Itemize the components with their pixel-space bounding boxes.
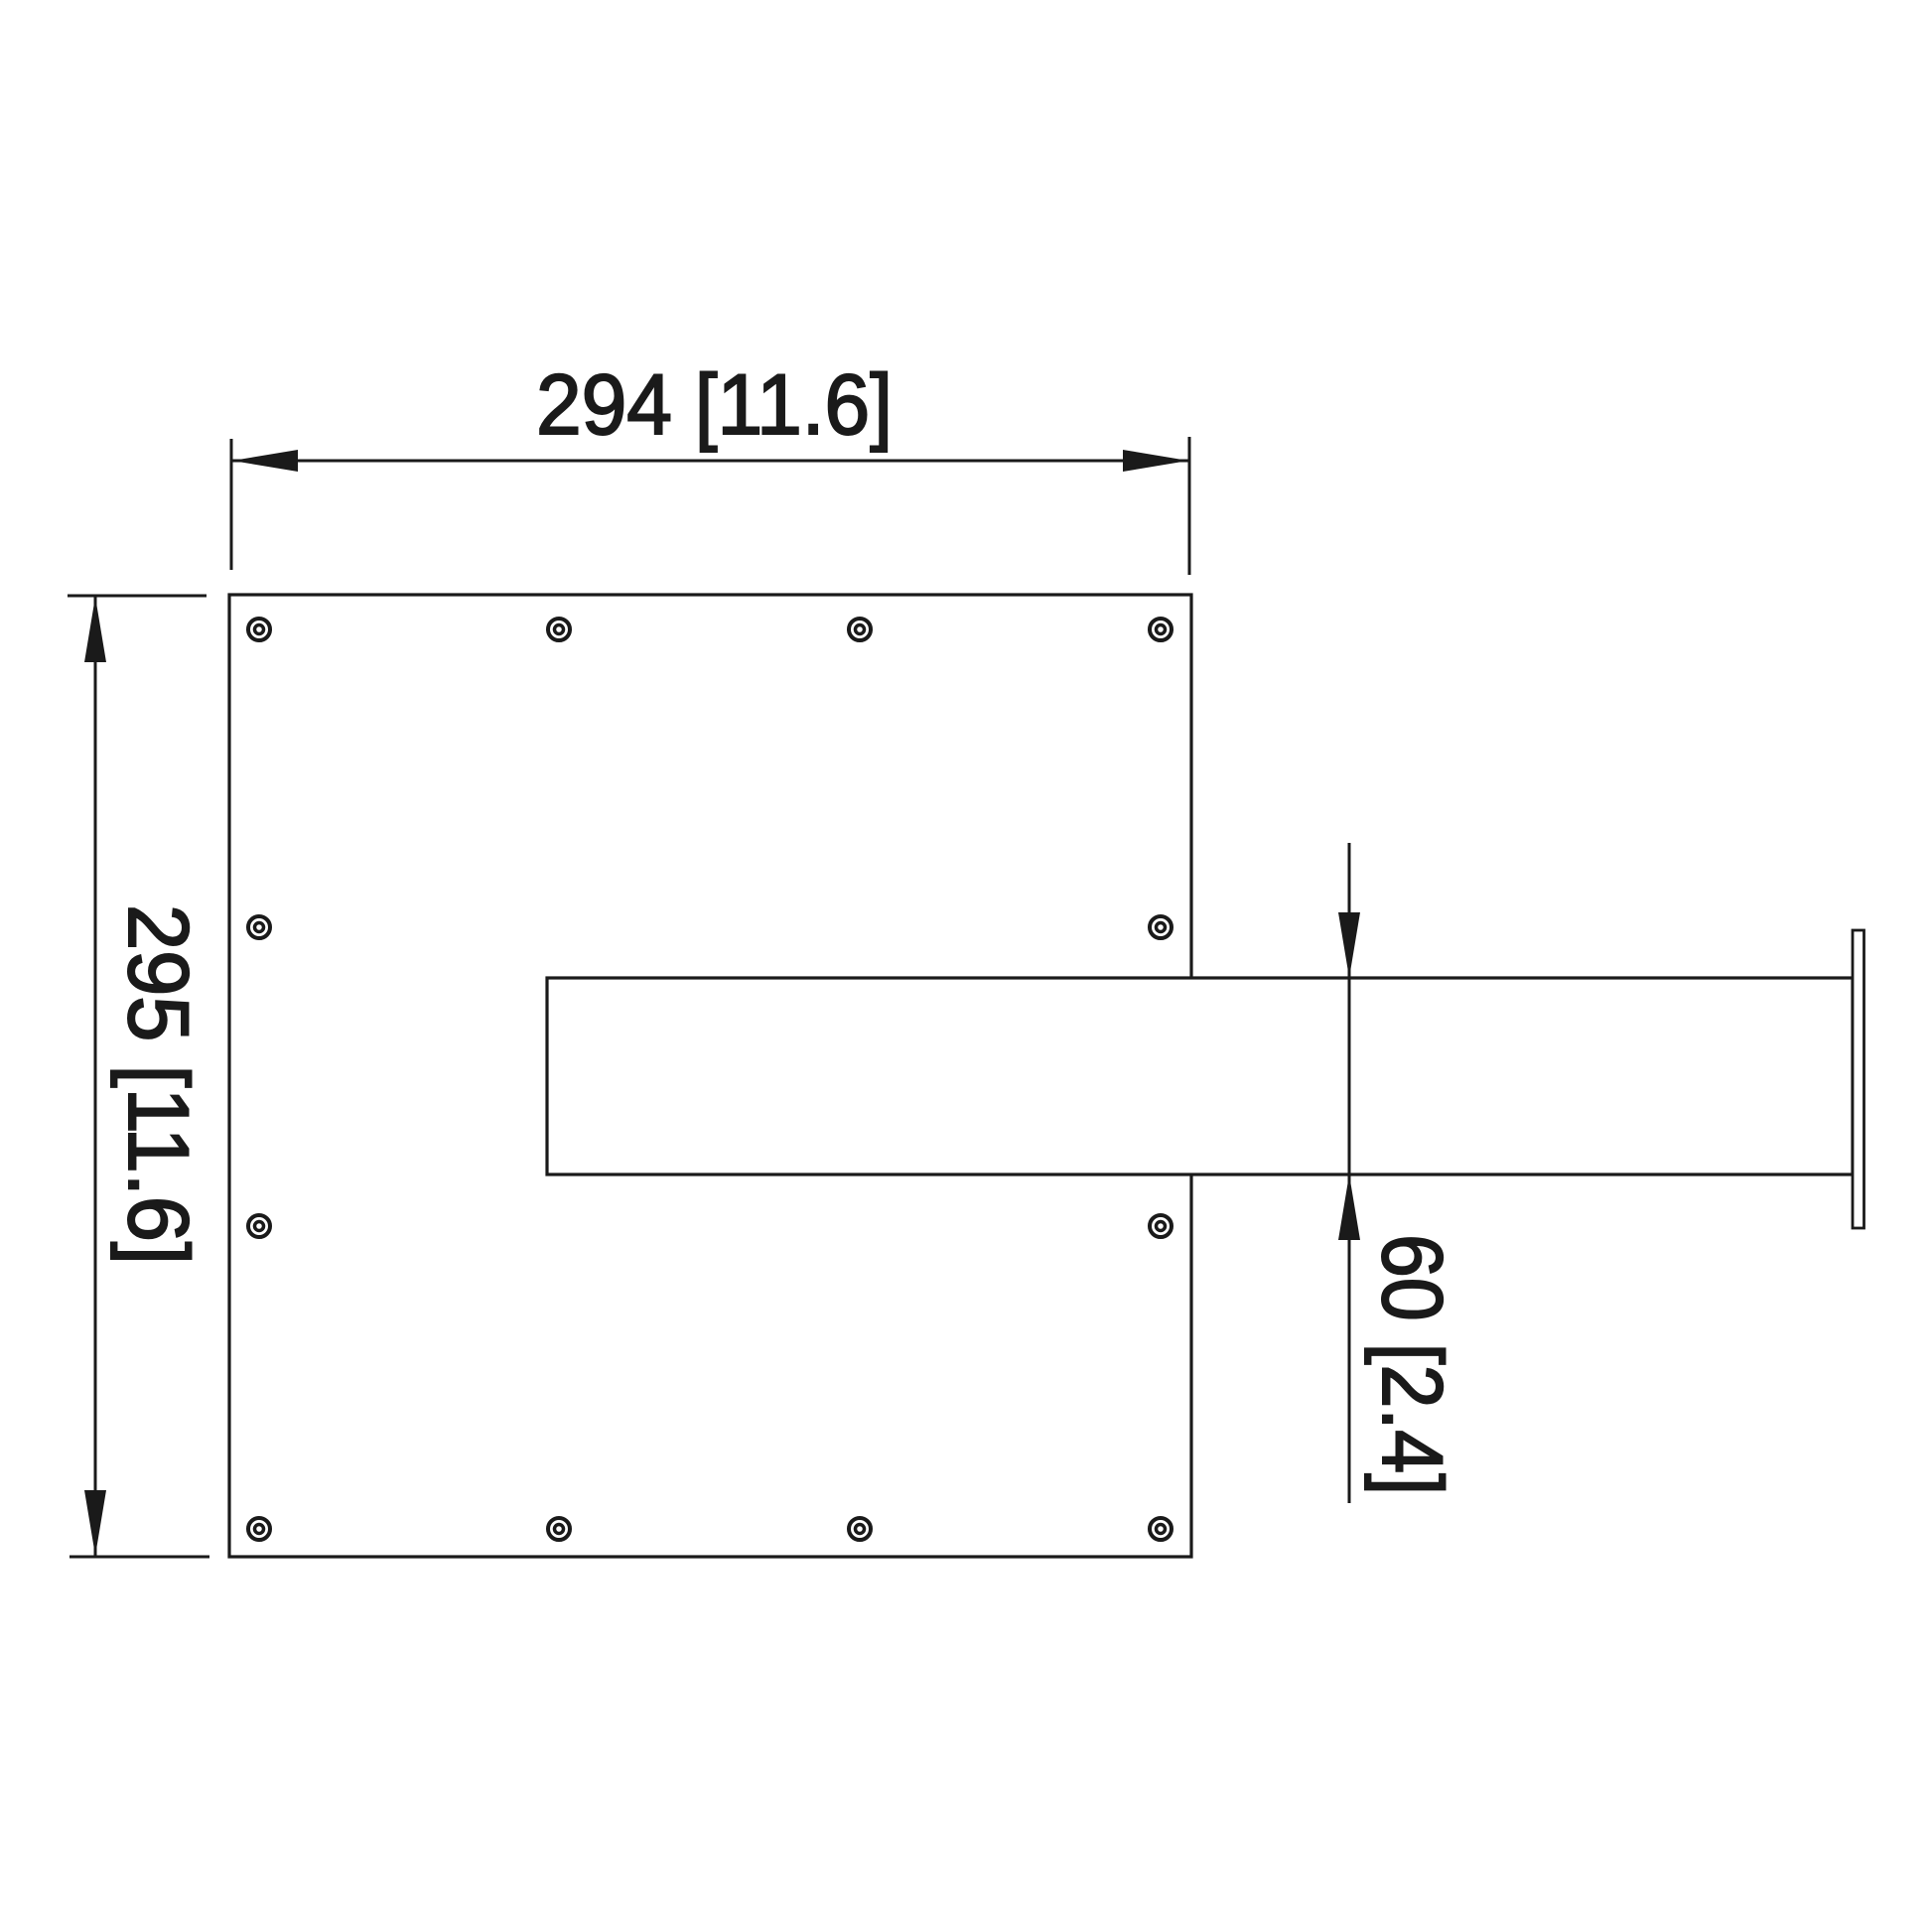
svg-text:60 [2.4]: 60 [2.4] — [1364, 1234, 1459, 1495]
svg-text:295 [11.6]: 295 [11.6] — [110, 904, 206, 1265]
svg-text:294 [11.6]: 294 [11.6] — [536, 357, 893, 453]
